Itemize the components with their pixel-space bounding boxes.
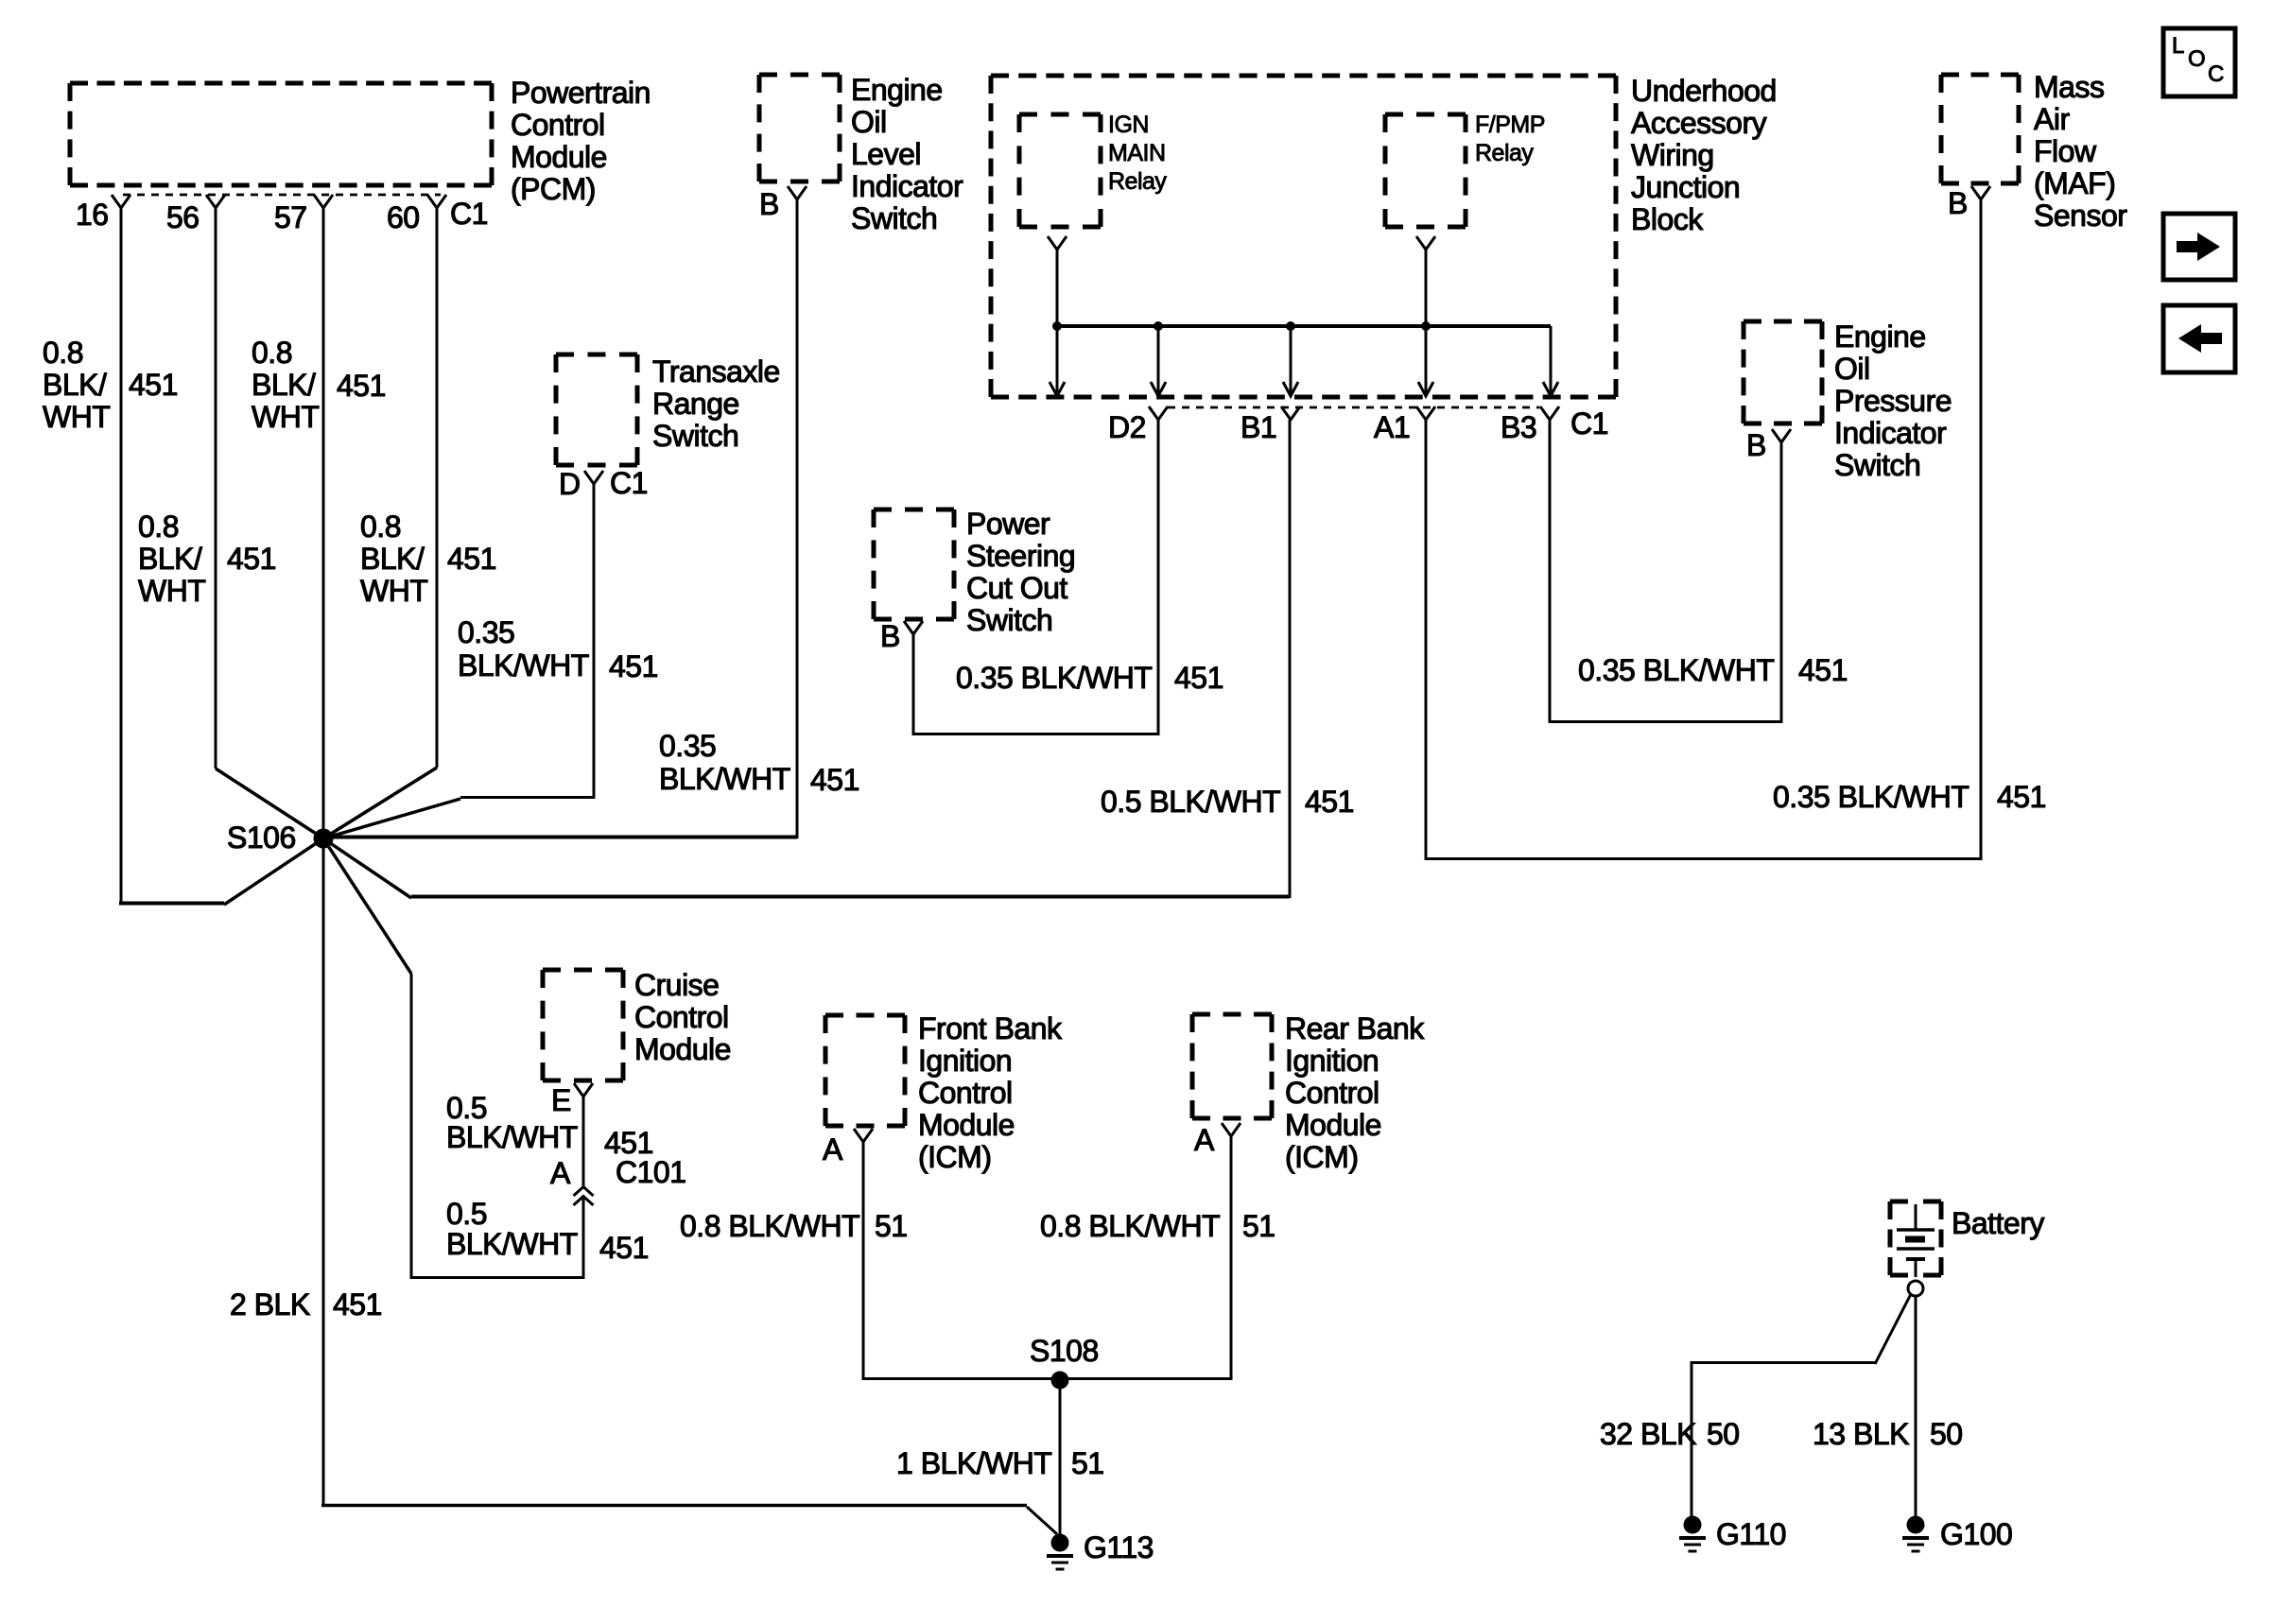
wire label 0.5 BLK/WHT (cruise lower)	[446, 1199, 578, 1260]
wire label 2 BLK (S106 to G113)	[230, 1288, 310, 1321]
wire label 0.8 BLK/WHT (pin 57)	[252, 337, 319, 433]
label: Battery	[1952, 1207, 2044, 1239]
LOC legend letter C	[2208, 63, 2224, 86]
junction node on bus at F/PMP relay wire	[1421, 321, 1431, 331]
circuit number 451 (pin 57 wire)	[337, 370, 386, 402]
junction block bus drop to edge below IGN relay	[1056, 326, 1059, 396]
PCM pin 60 Y connector	[427, 195, 446, 208]
rear bank ICM pin A Y connector	[1222, 1123, 1241, 1136]
label: Front Bank Ignition Control Module (ICM)	[918, 1012, 1062, 1173]
battery negative terminal node (open circle)	[1908, 1281, 1923, 1296]
LOC legend box	[2163, 28, 2235, 96]
IGN MAIN relay pin Y connector	[1048, 236, 1067, 250]
ground G100 label	[1940, 1518, 2012, 1550]
bus drop wire to pin D2	[1157, 326, 1160, 396]
junction block pin B1 Y connector	[1281, 406, 1300, 420]
wire battery to ground G100 (13 BLK 50)	[1915, 1296, 1917, 1516]
wire IGN MAIN relay to internal bus	[1056, 250, 1059, 326]
label: Transaxle Range Switch	[652, 355, 780, 452]
IGN MAIN relay dashed box	[1019, 114, 1101, 227]
label: Underhood Accessory Wiring Junction Block	[1631, 75, 1777, 235]
inline connector C101 pin A symbol (double chevron)	[574, 1187, 594, 1206]
wire label 1 BLK/WHT (S108 to G113)	[896, 1447, 1051, 1479]
wire PCM pin 56 to S106 (0.8 BLK/WHT 451)	[216, 208, 323, 838]
PCM pin 57 Y connector	[314, 195, 333, 208]
junction block pin B3 Y connector	[1540, 406, 1559, 420]
wire label 0.35 BLK/WHT (engine oil level)	[659, 730, 790, 796]
wire engine oil level switch pin B to S106 (0.35 BLK/WHT 451)	[323, 199, 797, 838]
battery symbol (two cells)	[1897, 1204, 1935, 1277]
PCM pin 57 label	[274, 201, 307, 233]
mass air flow sensor pin B Y connector	[1971, 186, 1990, 199]
transaxle range switch dashed box	[556, 354, 637, 465]
transaxle connector C1 label	[610, 467, 648, 499]
cruise control module pin E Y connector	[574, 1083, 593, 1097]
connector C101 pin A label	[550, 1157, 570, 1189]
connector C101 label	[616, 1156, 686, 1188]
wire label 0.8 BLK/WHT (rear ICM)	[1040, 1210, 1220, 1242]
circuit number 51 (front ICM)	[875, 1210, 908, 1242]
arrow at IGN relay drop	[1050, 382, 1065, 396]
transaxle range switch pin D Y connector	[584, 471, 603, 484]
wire PCM pin 57 through S106 down to G113 (2 BLK 451)	[321, 208, 1057, 1534]
F/PMP relay dashed box	[1385, 114, 1466, 227]
wire label 0.8 BLK/WHT (pin 60)	[360, 510, 427, 607]
transaxle pin D label	[559, 468, 581, 500]
F/PMP relay pin Y connector	[1416, 236, 1435, 250]
wire S106 to cruise control module pin E (0.5 BLK/WHT 451)	[323, 838, 583, 1279]
label: Power Steering Cut Out Switch	[966, 508, 1075, 636]
wire label 32 BLK (G110 wire)	[1600, 1418, 1696, 1450]
engine oil pressure indicator switch dashed box	[1744, 321, 1822, 423]
wire front bank ICM pin A to S108 (0.8 BLK/WHT 51)	[862, 1142, 1061, 1380]
engine oil level indicator switch dashed box	[759, 75, 840, 181]
junction block connector C1 dashed line	[1168, 406, 1539, 409]
front bank ignition control module (ICM) dashed box	[825, 1015, 905, 1126]
splice S106 label	[227, 821, 296, 854]
circuit number 451 (MAF wire)	[1997, 781, 2046, 813]
bus drop wire to pin B1	[1290, 326, 1293, 396]
engine oil level switch pin B label	[759, 188, 779, 220]
ground G113	[1047, 1534, 1073, 1570]
cruise control pin E label	[551, 1084, 571, 1116]
wire label 0.35 BLK/WHT (MAF)	[1773, 781, 1969, 813]
rear bank ignition control module (ICM) dashed box	[1192, 1014, 1272, 1118]
circuit number 451 (pin 60 wire)	[447, 543, 496, 575]
engine oil level indicator switch pin B Y connector	[788, 186, 807, 199]
circuit number 451 (2 BLK wire)	[333, 1288, 382, 1321]
wire label 0.5 BLK/WHT (B1 to S106)	[1101, 786, 1280, 818]
junction node on bus at IGN relay wire	[1052, 321, 1062, 331]
wire label 0.35 BLK/WHT (power steering)	[956, 662, 1152, 694]
splice S108	[1051, 1372, 1069, 1390]
wire label 0.8 BLK/WHT (pin 56)	[138, 510, 205, 607]
MAF sensor pin B label	[1948, 187, 1968, 219]
PCM pin 16 Y connector	[112, 195, 130, 208]
wire PCM pin 16 to S106 (0.8 BLK/WHT 451)	[119, 208, 323, 905]
power steering switch pin B label	[880, 620, 900, 652]
wire label 0.35 BLK/WHT (oil pressure)	[1578, 654, 1774, 686]
wire junction block pin A1 to MAF sensor pin B (0.35 BLK/WHT 451)	[1425, 199, 1983, 860]
powertrain control module (PCM) dashed box	[70, 83, 492, 185]
arrow at B3 drop	[1543, 382, 1558, 396]
splice S108 label	[1030, 1335, 1099, 1367]
arrow at A1 drop	[1418, 382, 1433, 396]
circuit number 451 (pin 16 wire)	[129, 369, 178, 401]
circuit number 451 (cruise upper)	[604, 1127, 653, 1159]
wire rear bank ICM pin A to S108 (0.8 BLK/WHT 51)	[1060, 1136, 1233, 1380]
junction node on bus at B1 drop	[1286, 321, 1295, 331]
cruise control module dashed box	[543, 970, 623, 1080]
wire junction block pin B3 to engine oil pressure switch pin B (0.35 BLK/WHT 451)	[1549, 420, 1783, 723]
label: Powertrain Control Module (PCM)	[511, 77, 651, 205]
PCM connector C1 dashed line	[123, 194, 441, 197]
arrow at B1 drop	[1283, 382, 1298, 396]
label: Rear Bank Ignition Control Module (ICM)	[1285, 1012, 1424, 1173]
rear ICM pin A label	[1194, 1124, 1214, 1156]
front bank ICM pin A Y connector	[854, 1129, 873, 1142]
ground G113 label	[1084, 1531, 1154, 1564]
wire label 13 BLK (G100 wire)	[1813, 1418, 1909, 1450]
junction block connector C1 label	[1570, 407, 1608, 440]
ground G110	[1679, 1516, 1706, 1552]
front ICM pin A label	[823, 1133, 842, 1166]
PCM connector C1 label	[450, 198, 488, 230]
engine oil pressure switch pin B label	[1746, 429, 1766, 461]
label: Engine Oil Pressure Indicator Switch	[1834, 320, 1952, 481]
circuit number 50 (G100 wire)	[1930, 1418, 1963, 1450]
wire S108 to ground G113 (1 BLK/WHT 51)	[1059, 1380, 1062, 1534]
wire transaxle range switch pin D to S106 (0.35 BLK/WHT 451)	[323, 484, 594, 838]
wire label 0.35 BLK/WHT (transaxle)	[458, 616, 589, 682]
wire battery to ground G110 (32 BLK 50)	[1691, 1294, 1912, 1516]
label: IGN MAIN Relay	[1108, 111, 1166, 196]
PCM pin 56 label	[166, 201, 200, 233]
mass air flow (MAF) sensor dashed box	[1941, 75, 2019, 183]
circuit number 451 (engine oil level wire)	[810, 764, 859, 796]
circuit number 451 (pin 56 wire)	[227, 543, 276, 575]
wire F/PMP relay through bus to pin A1	[1425, 250, 1428, 396]
circuit number 451 (cruise lower)	[599, 1232, 649, 1264]
junction block pin A1 label	[1374, 411, 1410, 443]
circuit number 451 (oil pressure wire)	[1798, 654, 1848, 686]
junction node on bus at D2 drop	[1154, 321, 1163, 331]
back arrow legend box	[2163, 305, 2235, 372]
circuit number 51 (S108 ground wire)	[1071, 1447, 1104, 1479]
underhood accessory wiring junction block dashed box	[991, 76, 1616, 397]
wire power steering switch pin B to junction block pin D2 (0.35 BLK/WHT 451)	[912, 420, 1160, 735]
circuit number 451 (transaxle wire)	[609, 650, 658, 682]
junction block pin B3 label	[1501, 411, 1536, 443]
label: Engine Oil Level Indicator Switch	[851, 74, 963, 234]
junction block pin A1 Y connector	[1416, 406, 1435, 420]
junction block pin B1 label	[1241, 411, 1276, 443]
LOC legend letter O	[2188, 48, 2205, 71]
ground G110 label	[1716, 1518, 1786, 1550]
battery dashed box	[1890, 1201, 1941, 1275]
wire label 0.5 BLK/WHT (cruise upper)	[446, 1094, 578, 1153]
splice S106	[314, 829, 334, 849]
circuit number 451 (B1 wire)	[1305, 786, 1354, 818]
LOC legend letter L	[2172, 35, 2184, 58]
label: F/PMP Relay	[1475, 111, 1545, 167]
bus right-end drop wire to pin B3	[1550, 326, 1553, 396]
PCM pin 60 label	[387, 201, 420, 233]
forward arrow legend box	[2163, 214, 2235, 280]
wire PCM pin 60 to S106 (0.8 BLK/WHT 451)	[323, 208, 437, 838]
junction block pin D2 label	[1108, 411, 1146, 443]
circuit number 51 (rear ICM)	[1242, 1210, 1275, 1242]
wire junction block pin B1 to S106 (0.5 BLK/WHT 451)	[323, 420, 1290, 898]
power steering cut out switch pin B Y connector	[904, 621, 923, 634]
junction block pin D2 Y connector	[1149, 406, 1168, 420]
PCM pin 56 Y connector	[206, 195, 225, 208]
junction block internal bus wire	[1057, 324, 1551, 328]
ground G100	[1902, 1516, 1929, 1552]
wire label 0.8 BLK/WHT (front ICM)	[680, 1210, 859, 1242]
engine oil pressure indicator switch pin B Y connector	[1772, 429, 1791, 442]
wire label 0.8 BLK/WHT (pin 16)	[43, 337, 110, 433]
circuit number 451 (power steering wire)	[1174, 662, 1223, 694]
circuit number 50 (G110 wire)	[1707, 1418, 1740, 1450]
power steering cut out switch dashed box	[874, 510, 954, 619]
arrow at D2 drop	[1151, 382, 1166, 396]
PCM pin 16 label	[76, 199, 109, 231]
label: Cruise Control Module	[634, 969, 731, 1065]
label: Mass Air Flow (MAF) Sensor	[2034, 71, 2126, 232]
